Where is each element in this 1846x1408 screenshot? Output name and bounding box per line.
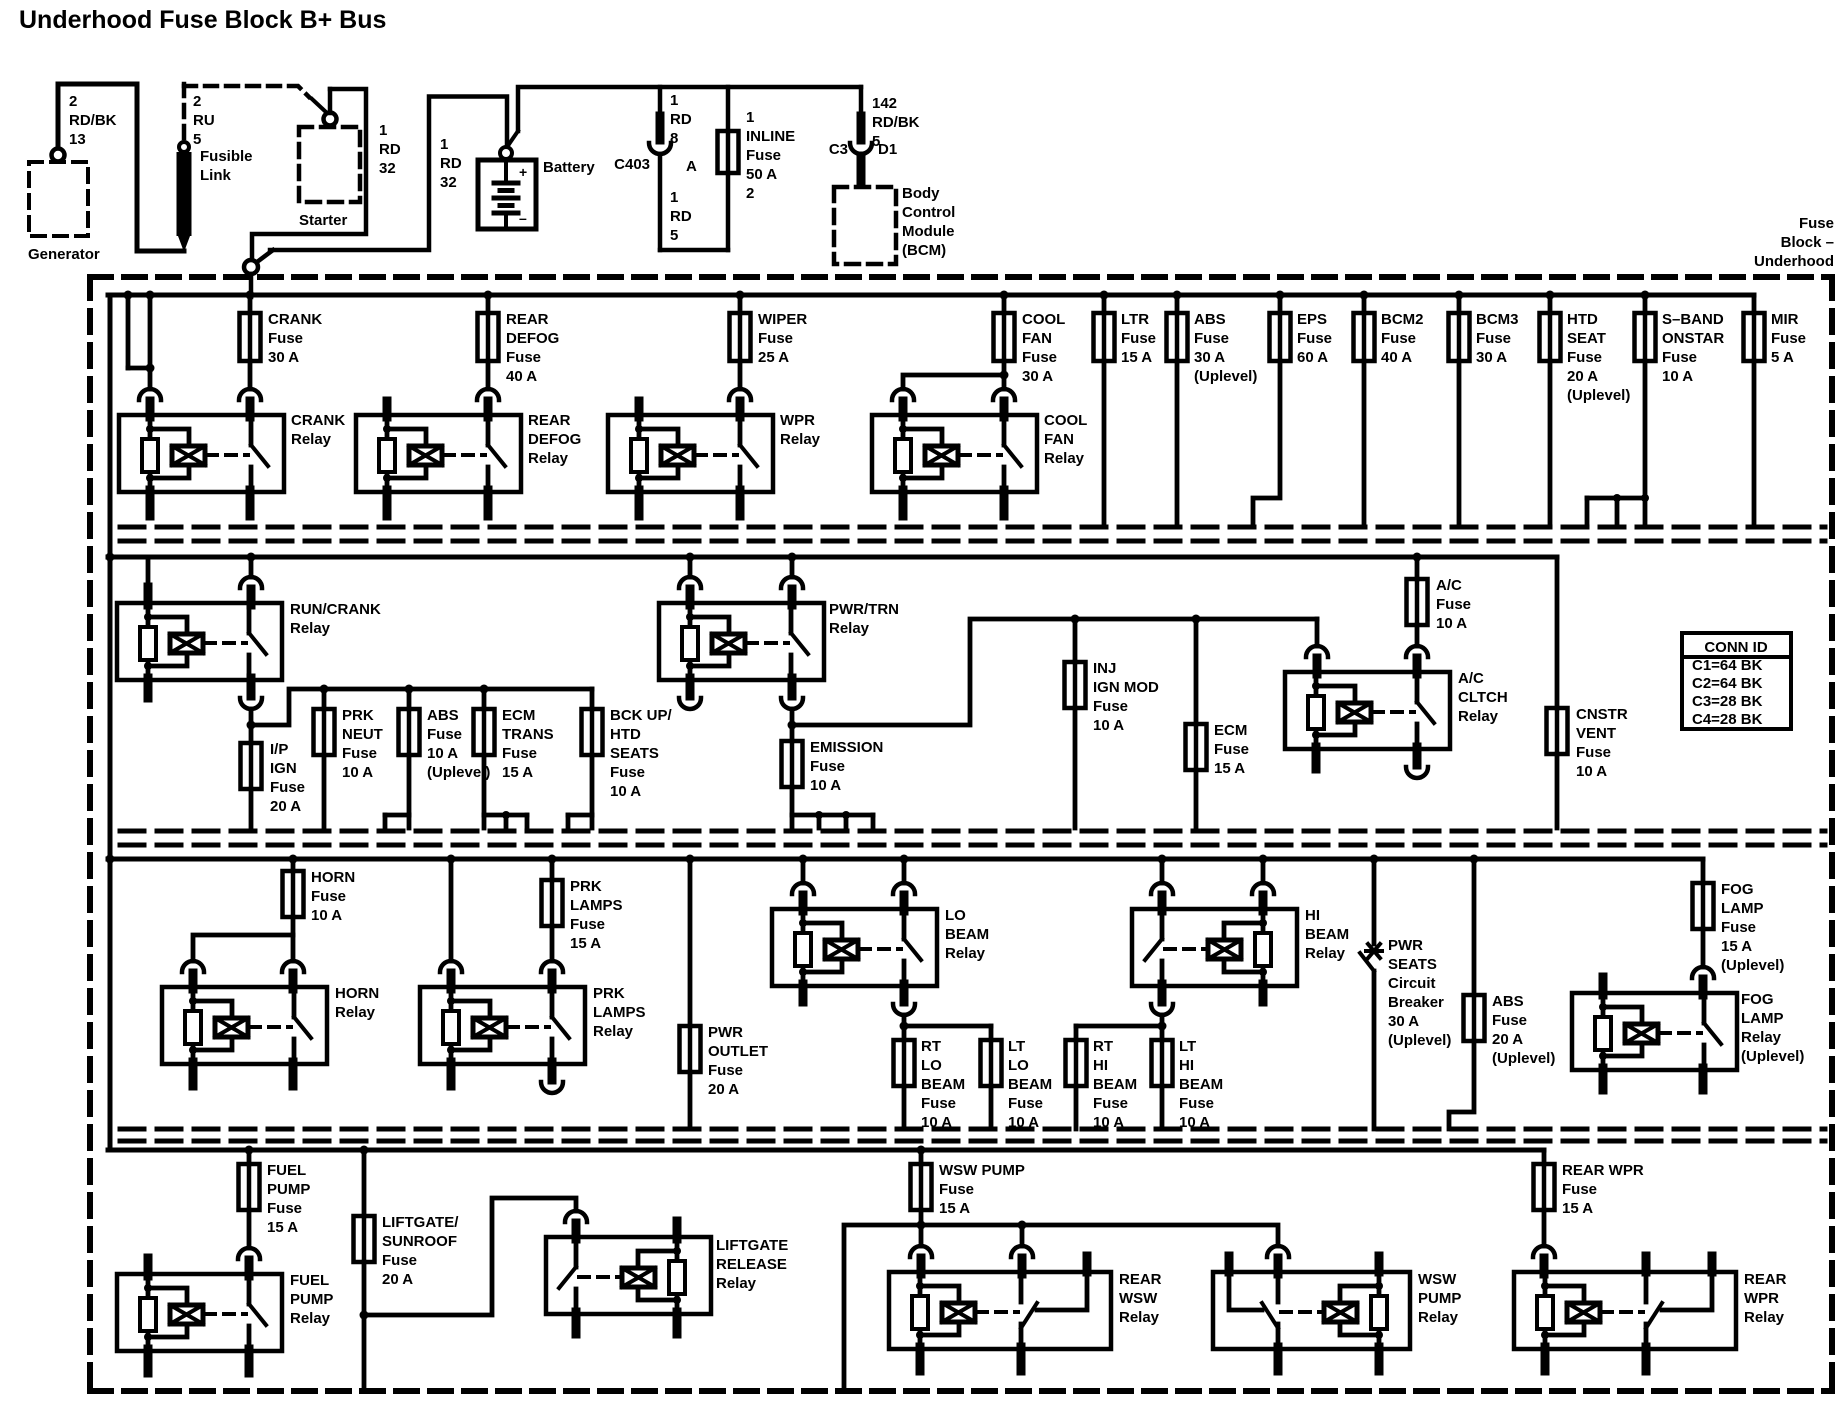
- svg-text:Starter: Starter: [299, 212, 348, 229]
- svg-text:(Uplevel): (Uplevel): [1721, 957, 1784, 974]
- svg-text:Fuse: Fuse: [810, 758, 845, 775]
- svg-text:60 A: 60 A: [1297, 349, 1328, 366]
- svg-text:Relay: Relay: [290, 620, 331, 637]
- svg-text:SEATS: SEATS: [1388, 956, 1437, 973]
- svg-text:Relay: Relay: [780, 431, 821, 448]
- svg-text:TRANS: TRANS: [502, 726, 554, 743]
- svg-text:32: 32: [379, 160, 396, 177]
- svg-text:30 A: 30 A: [1022, 368, 1053, 385]
- svg-text:REAR: REAR: [1744, 1271, 1787, 1288]
- svg-text:10 A: 10 A: [610, 783, 641, 800]
- svg-text:RT: RT: [921, 1038, 941, 1055]
- svg-text:Relay: Relay: [716, 1275, 757, 1292]
- svg-text:Module: Module: [902, 223, 955, 240]
- svg-text:ONSTAR: ONSTAR: [1662, 330, 1724, 347]
- svg-text:IGN: IGN: [270, 760, 297, 777]
- svg-text:SEATS: SEATS: [610, 745, 659, 762]
- svg-text:BCM2: BCM2: [1381, 311, 1424, 328]
- svg-text:Relay: Relay: [593, 1023, 634, 1040]
- svg-text:Fuse: Fuse: [1492, 1012, 1527, 1029]
- svg-text:15 A: 15 A: [1121, 349, 1152, 366]
- svg-text:ECM: ECM: [1214, 722, 1247, 739]
- svg-text:REAR: REAR: [528, 412, 571, 429]
- svg-text:PUMP: PUMP: [1418, 1290, 1461, 1307]
- svg-text:RUN/CRANK: RUN/CRANK: [290, 601, 381, 618]
- svg-text:(BCM): (BCM): [902, 242, 946, 259]
- svg-text:5 A: 5 A: [1771, 349, 1794, 366]
- svg-text:142: 142: [872, 95, 897, 112]
- svg-text:–: –: [519, 210, 527, 226]
- svg-text:Fuse: Fuse: [1214, 741, 1249, 758]
- svg-text:15 A: 15 A: [267, 1219, 298, 1236]
- svg-text:CNSTR: CNSTR: [1576, 706, 1628, 723]
- svg-text:10 A: 10 A: [1093, 1114, 1124, 1131]
- svg-text:10 A: 10 A: [810, 777, 841, 794]
- svg-text:Fuse: Fuse: [1381, 330, 1416, 347]
- svg-text:RELEASE: RELEASE: [716, 1256, 787, 1273]
- svg-text:10 A: 10 A: [921, 1114, 952, 1131]
- svg-text:LAMP: LAMP: [1741, 1010, 1784, 1027]
- svg-text:Fuse: Fuse: [746, 147, 781, 164]
- svg-text:FAN: FAN: [1044, 431, 1074, 448]
- svg-text:RT: RT: [1093, 1038, 1113, 1055]
- svg-text:15 A: 15 A: [1214, 760, 1245, 777]
- svg-text:PUMP: PUMP: [267, 1181, 310, 1198]
- svg-text:10 A: 10 A: [1436, 615, 1467, 632]
- svg-text:10 A: 10 A: [1179, 1114, 1210, 1131]
- svg-text:Relay: Relay: [335, 1004, 376, 1021]
- svg-text:15 A: 15 A: [570, 935, 601, 952]
- svg-text:1: 1: [670, 92, 678, 109]
- svg-text:(Uplevel): (Uplevel): [1741, 1048, 1804, 1065]
- svg-text:Fuse: Fuse: [342, 745, 377, 762]
- svg-text:INJ: INJ: [1093, 660, 1116, 677]
- svg-text:(Uplevel): (Uplevel): [1194, 368, 1257, 385]
- svg-text:BEAM: BEAM: [921, 1076, 965, 1093]
- svg-text:Relay: Relay: [1458, 708, 1499, 725]
- svg-text:Fuse: Fuse: [1771, 330, 1806, 347]
- svg-text:D1: D1: [878, 141, 897, 158]
- svg-text:2: 2: [69, 93, 77, 110]
- svg-text:LIFTGATE/: LIFTGATE/: [382, 1214, 459, 1231]
- svg-text:30 A: 30 A: [1194, 349, 1225, 366]
- svg-text:Fusible: Fusible: [200, 148, 253, 165]
- svg-text:FAN: FAN: [1022, 330, 1052, 347]
- svg-text:Fuse: Fuse: [267, 1200, 302, 1217]
- svg-text:Relay: Relay: [1418, 1309, 1459, 1326]
- svg-text:Circuit: Circuit: [1388, 975, 1436, 992]
- svg-text:LT: LT: [1179, 1038, 1196, 1055]
- svg-text:Relay: Relay: [528, 450, 569, 467]
- svg-text:LIFTGATE: LIFTGATE: [716, 1237, 788, 1254]
- svg-text:10 A: 10 A: [1662, 368, 1693, 385]
- svg-text:Body: Body: [902, 185, 940, 202]
- svg-text:RD: RD: [379, 141, 401, 158]
- svg-text:Fuse: Fuse: [1662, 349, 1697, 366]
- svg-text:Fuse: Fuse: [1297, 330, 1332, 347]
- svg-text:HTD: HTD: [610, 726, 641, 743]
- svg-text:PRK: PRK: [342, 707, 374, 724]
- svg-text:30 A: 30 A: [268, 349, 299, 366]
- svg-text:RD: RD: [670, 208, 692, 225]
- svg-text:Relay: Relay: [1119, 1309, 1160, 1326]
- svg-text:8: 8: [670, 130, 678, 147]
- svg-text:OUTLET: OUTLET: [708, 1043, 768, 1060]
- svg-text:CONN ID: CONN ID: [1704, 639, 1768, 656]
- svg-text:A: A: [686, 158, 697, 175]
- svg-text:RD/BK: RD/BK: [872, 114, 920, 131]
- svg-text:Fuse: Fuse: [758, 330, 793, 347]
- svg-text:Fuse: Fuse: [708, 1062, 743, 1079]
- svg-text:C3=28 BK: C3=28 BK: [1692, 693, 1763, 710]
- svg-text:INLINE: INLINE: [746, 128, 795, 145]
- svg-text:BEAM: BEAM: [945, 926, 989, 943]
- svg-text:ABS: ABS: [1492, 993, 1524, 1010]
- svg-text:Underhood Fuse Block B+ Bus: Underhood Fuse Block B+ Bus: [19, 6, 386, 34]
- svg-text:PWR: PWR: [708, 1024, 743, 1041]
- svg-text:Relay: Relay: [290, 1310, 331, 1327]
- svg-text:5: 5: [670, 227, 678, 244]
- svg-text:COOL: COOL: [1022, 311, 1065, 328]
- svg-text:SEAT: SEAT: [1567, 330, 1606, 347]
- svg-text:Fuse: Fuse: [270, 779, 305, 796]
- svg-text:FUEL: FUEL: [267, 1162, 306, 1179]
- svg-text:C1=64 BK: C1=64 BK: [1692, 657, 1763, 674]
- svg-text:+: +: [519, 164, 527, 180]
- svg-text:CRANK: CRANK: [268, 311, 322, 328]
- svg-text:10 A: 10 A: [1576, 763, 1607, 780]
- svg-text:LTR: LTR: [1121, 311, 1149, 328]
- svg-text:Fuse: Fuse: [382, 1252, 417, 1269]
- svg-text:(Uplevel): (Uplevel): [1388, 1032, 1451, 1049]
- svg-text:1: 1: [379, 122, 387, 139]
- svg-text:IGN MOD: IGN MOD: [1093, 679, 1159, 696]
- svg-text:5: 5: [193, 131, 201, 148]
- svg-text:CRANK: CRANK: [291, 412, 345, 429]
- svg-text:Fuse: Fuse: [1121, 330, 1156, 347]
- svg-text:Fuse: Fuse: [311, 888, 346, 905]
- svg-text:40 A: 40 A: [1381, 349, 1412, 366]
- svg-text:A/C: A/C: [1458, 670, 1484, 687]
- svg-text:Relay: Relay: [945, 945, 986, 962]
- svg-text:PUMP: PUMP: [290, 1291, 333, 1308]
- svg-text:20 A: 20 A: [270, 798, 301, 815]
- svg-text:Fuse: Fuse: [506, 349, 541, 366]
- svg-text:C403: C403: [614, 156, 650, 173]
- svg-text:2: 2: [746, 185, 754, 202]
- svg-text:LO: LO: [1008, 1057, 1029, 1074]
- svg-text:LO: LO: [945, 907, 966, 924]
- svg-text:HTD: HTD: [1567, 311, 1598, 328]
- svg-text:10 A: 10 A: [427, 745, 458, 762]
- svg-text:10 A: 10 A: [1093, 717, 1124, 734]
- svg-text:FUEL: FUEL: [290, 1272, 329, 1289]
- svg-text:40 A: 40 A: [506, 368, 537, 385]
- svg-text:Fuse: Fuse: [1799, 215, 1834, 232]
- svg-text:Fuse: Fuse: [268, 330, 303, 347]
- svg-text:Fuse: Fuse: [1436, 596, 1471, 613]
- svg-text:10 A: 10 A: [311, 907, 342, 924]
- svg-text:20 A: 20 A: [708, 1081, 739, 1098]
- svg-text:BCM3: BCM3: [1476, 311, 1519, 328]
- svg-text:Fuse: Fuse: [1721, 919, 1756, 936]
- svg-text:Control: Control: [902, 204, 955, 221]
- svg-text:Fuse: Fuse: [502, 745, 537, 762]
- svg-text:HI: HI: [1093, 1057, 1108, 1074]
- svg-text:BEAM: BEAM: [1093, 1076, 1137, 1093]
- svg-text:13: 13: [69, 131, 86, 148]
- svg-text:Fuse: Fuse: [921, 1095, 956, 1112]
- svg-text:Underhood: Underhood: [1754, 253, 1834, 270]
- svg-text:NEUT: NEUT: [342, 726, 383, 743]
- svg-text:10 A: 10 A: [342, 764, 373, 781]
- svg-text:FOG: FOG: [1721, 881, 1754, 898]
- svg-text:20 A: 20 A: [1567, 368, 1598, 385]
- svg-text:10 A: 10 A: [1008, 1114, 1039, 1131]
- svg-text:LO: LO: [921, 1057, 942, 1074]
- svg-text:15 A: 15 A: [1562, 1200, 1593, 1217]
- svg-text:(Uplevel): (Uplevel): [1492, 1050, 1555, 1067]
- svg-text:REAR WPR: REAR WPR: [1562, 1162, 1644, 1179]
- svg-text:RD/BK: RD/BK: [69, 112, 117, 129]
- svg-text:C2=64 BK: C2=64 BK: [1692, 675, 1763, 692]
- svg-text:Fuse: Fuse: [1008, 1095, 1043, 1112]
- svg-text:HORN: HORN: [335, 985, 379, 1002]
- svg-text:1: 1: [746, 109, 754, 126]
- svg-text:Fuse: Fuse: [427, 726, 462, 743]
- svg-text:ABS: ABS: [427, 707, 459, 724]
- svg-text:PRK: PRK: [570, 878, 602, 895]
- svg-text:EPS: EPS: [1297, 311, 1327, 328]
- svg-text:(Uplevel): (Uplevel): [427, 764, 490, 781]
- svg-text:LT: LT: [1008, 1038, 1025, 1055]
- svg-text:HORN: HORN: [311, 869, 355, 886]
- svg-text:LAMPS: LAMPS: [570, 897, 623, 914]
- svg-text:Fuse: Fuse: [1179, 1095, 1214, 1112]
- svg-text:C4=28 BK: C4=28 BK: [1692, 711, 1763, 728]
- svg-text:EMISSION: EMISSION: [810, 739, 883, 756]
- svg-text:Fuse: Fuse: [1022, 349, 1057, 366]
- svg-text:REAR: REAR: [506, 311, 549, 328]
- svg-text:Link: Link: [200, 167, 231, 184]
- svg-text:RD: RD: [440, 155, 462, 172]
- svg-text:WSW PUMP: WSW PUMP: [939, 1162, 1025, 1179]
- svg-text:PRK: PRK: [593, 985, 625, 1002]
- svg-text:MIR: MIR: [1771, 311, 1799, 328]
- svg-text:20 A: 20 A: [1492, 1031, 1523, 1048]
- svg-text:25 A: 25 A: [758, 349, 789, 366]
- svg-text:WIPER: WIPER: [758, 311, 807, 328]
- svg-text:Breaker: Breaker: [1388, 994, 1444, 1011]
- svg-text:HI: HI: [1179, 1057, 1194, 1074]
- svg-text:15 A: 15 A: [502, 764, 533, 781]
- svg-text:Fuse: Fuse: [1476, 330, 1511, 347]
- svg-text:HI: HI: [1305, 907, 1320, 924]
- svg-text:Fuse: Fuse: [1567, 349, 1602, 366]
- svg-text:WPR: WPR: [1744, 1290, 1779, 1307]
- svg-text:30 A: 30 A: [1388, 1013, 1419, 1030]
- svg-text:2: 2: [193, 93, 201, 110]
- svg-text:Relay: Relay: [1741, 1029, 1782, 1046]
- svg-text:RD: RD: [670, 111, 692, 128]
- svg-text:PWR: PWR: [1388, 937, 1423, 954]
- svg-text:RU: RU: [193, 112, 215, 129]
- svg-text:BCK UP/: BCK UP/: [610, 707, 673, 724]
- svg-text:COOL: COOL: [1044, 412, 1087, 429]
- svg-text:REAR: REAR: [1119, 1271, 1162, 1288]
- svg-text:S–BAND: S–BAND: [1662, 311, 1724, 328]
- svg-text:I/P: I/P: [270, 741, 288, 758]
- svg-text:Block –: Block –: [1781, 234, 1834, 251]
- svg-text:BEAM: BEAM: [1179, 1076, 1223, 1093]
- svg-text:15 A: 15 A: [1721, 938, 1752, 955]
- svg-text:DEFOG: DEFOG: [506, 330, 559, 347]
- svg-text:Fuse: Fuse: [1194, 330, 1229, 347]
- svg-text:Fuse: Fuse: [1562, 1181, 1597, 1198]
- svg-text:BEAM: BEAM: [1305, 926, 1349, 943]
- svg-text:Relay: Relay: [291, 431, 332, 448]
- svg-text:Relay: Relay: [1044, 450, 1085, 467]
- svg-text:Battery: Battery: [543, 159, 595, 176]
- svg-text:Fuse: Fuse: [1093, 698, 1128, 715]
- svg-text:BEAM: BEAM: [1008, 1076, 1052, 1093]
- svg-text:(Uplevel): (Uplevel): [1567, 387, 1630, 404]
- svg-text:ECM: ECM: [502, 707, 535, 724]
- svg-text:CLTCH: CLTCH: [1458, 689, 1508, 706]
- svg-text:WPR: WPR: [780, 412, 815, 429]
- svg-text:C3: C3: [829, 141, 848, 158]
- svg-text:ABS: ABS: [1194, 311, 1226, 328]
- svg-text:Generator: Generator: [28, 246, 100, 263]
- svg-text:Relay: Relay: [1744, 1309, 1785, 1326]
- svg-text:20 A: 20 A: [382, 1271, 413, 1288]
- svg-text:WSW: WSW: [1119, 1290, 1158, 1307]
- svg-text:Fuse: Fuse: [939, 1181, 974, 1198]
- svg-text:15 A: 15 A: [939, 1200, 970, 1217]
- svg-text:30 A: 30 A: [1476, 349, 1507, 366]
- svg-text:VENT: VENT: [1576, 725, 1616, 742]
- svg-text:Relay: Relay: [1305, 945, 1346, 962]
- svg-text:Fuse: Fuse: [610, 764, 645, 781]
- svg-text:LAMPS: LAMPS: [593, 1004, 646, 1021]
- svg-text:Relay: Relay: [829, 620, 870, 637]
- svg-text:DEFOG: DEFOG: [528, 431, 581, 448]
- svg-text:1: 1: [670, 189, 678, 206]
- svg-text:32: 32: [440, 174, 457, 191]
- svg-text:1: 1: [440, 136, 448, 153]
- svg-text:PWR/TRN: PWR/TRN: [829, 601, 899, 618]
- svg-text:Fuse: Fuse: [570, 916, 605, 933]
- svg-text:Fuse: Fuse: [1576, 744, 1611, 761]
- svg-text:A/C: A/C: [1436, 577, 1462, 594]
- svg-text:Fuse: Fuse: [1093, 1095, 1128, 1112]
- svg-text:WSW: WSW: [1418, 1271, 1457, 1288]
- svg-text:50 A: 50 A: [746, 166, 777, 183]
- svg-text:SUNROOF: SUNROOF: [382, 1233, 457, 1250]
- svg-text:FOG: FOG: [1741, 991, 1774, 1008]
- svg-text:LAMP: LAMP: [1721, 900, 1764, 917]
